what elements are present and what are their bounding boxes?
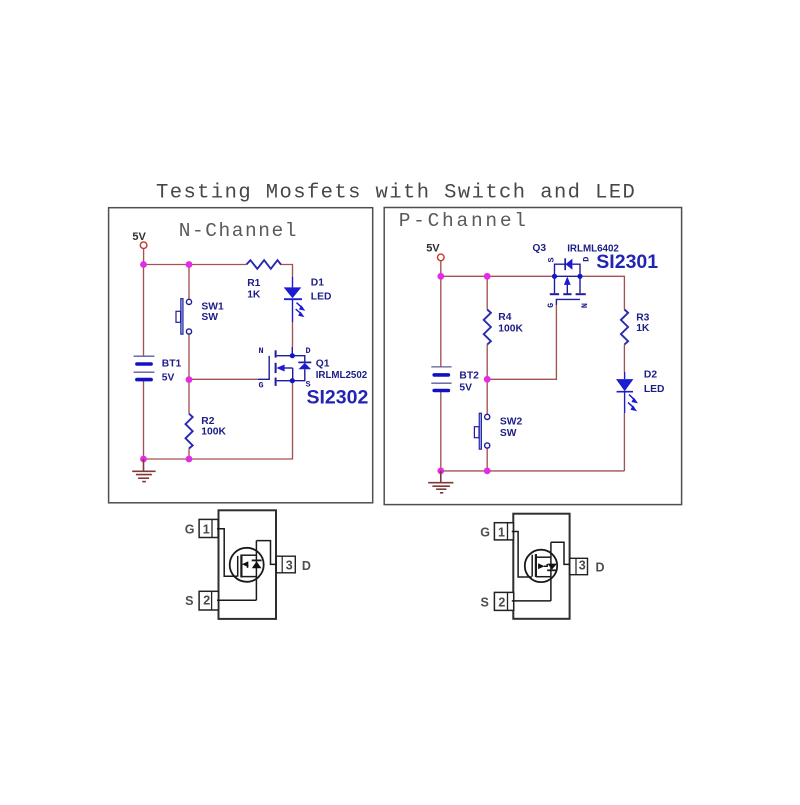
source stub bbox=[277, 380, 293, 382]
battery BT2 bbox=[431, 367, 451, 391]
diode cathode bar bbox=[564, 258, 566, 270]
node top rail r4 bbox=[484, 273, 491, 280]
substrate arrow line bbox=[566, 283, 568, 294]
drain loop right pkg bbox=[551, 542, 570, 564]
wire R4 top lead bbox=[486, 276, 488, 309]
svg-text:D: D bbox=[582, 257, 592, 262]
ground left bbox=[132, 459, 155, 482]
wire SW2 top bbox=[486, 379, 488, 414]
wire sw1 bottom bbox=[188, 334, 190, 380]
LED D2 bbox=[616, 372, 638, 413]
svg-text:1K: 1K bbox=[247, 289, 261, 300]
drain arch bbox=[572, 264, 580, 276]
svg-text:LED: LED bbox=[644, 384, 665, 395]
diode cathode bar left pkg bbox=[252, 559, 262, 561]
gate bar left pkg bbox=[237, 556, 239, 577]
bottom stub left pkg bbox=[241, 576, 256, 578]
package body left bbox=[219, 510, 277, 619]
resistor R4 bbox=[484, 310, 491, 345]
pin1 trace bbox=[217, 529, 237, 576]
node gate bbox=[186, 376, 193, 383]
svg-text:BT1: BT1 bbox=[162, 359, 182, 370]
svg-text:G: G bbox=[259, 381, 264, 391]
source dot Q1 bbox=[290, 378, 295, 383]
substrate line right pkg bbox=[544, 564, 547, 566]
svg-text:G: G bbox=[185, 522, 195, 536]
svg-text:3: 3 bbox=[286, 558, 293, 572]
channel dashes bbox=[275, 350, 277, 357]
resistor R2 bbox=[186, 414, 193, 449]
drain stub bbox=[579, 276, 581, 293]
node top rail left bbox=[140, 261, 147, 268]
pin 2 box right bbox=[494, 592, 513, 610]
svg-text:N: N bbox=[259, 346, 264, 356]
drain dot Q1 bbox=[290, 353, 295, 358]
resistor R3 bbox=[621, 310, 628, 345]
main vertical left pkg bbox=[255, 541, 257, 601]
wire SW2 bottom bbox=[486, 448, 488, 471]
wire mosfet to R3 corner bbox=[580, 276, 624, 309]
battery BT1 bbox=[134, 356, 155, 379]
node top rail bt2 bbox=[437, 273, 444, 280]
wire 5V terminal stub bbox=[143, 249, 145, 265]
wire R4 bottom lead bbox=[486, 345, 488, 380]
svg-text:SI2302: SI2302 bbox=[307, 387, 369, 409]
wire gate bbox=[189, 378, 258, 380]
mosfet Q3 bbox=[550, 258, 586, 305]
substrate line bbox=[283, 367, 293, 369]
node top rail sw1 bbox=[186, 261, 193, 268]
left panel frame bbox=[109, 208, 373, 503]
top stub right pkg bbox=[536, 556, 551, 558]
pin 1 box left bbox=[199, 519, 218, 537]
svg-text:S: S bbox=[481, 596, 489, 610]
svg-text:G: G bbox=[546, 303, 556, 308]
source arch bbox=[555, 264, 565, 276]
junction dots left panel bbox=[140, 261, 192, 462]
pin 1 box right bbox=[494, 523, 513, 540]
node gate r4 bbox=[484, 376, 491, 383]
wire top rail right bbox=[441, 275, 555, 277]
svg-text:3: 3 bbox=[579, 558, 586, 572]
wire battery top bbox=[440, 276, 442, 367]
channel bar right pkg bbox=[535, 554, 537, 577]
node bottom left bbox=[140, 456, 147, 463]
source trace left pkg bbox=[217, 599, 256, 601]
svg-text:2: 2 bbox=[203, 594, 210, 608]
svg-text:SW: SW bbox=[500, 428, 517, 439]
svg-text:N: N bbox=[580, 303, 590, 308]
wire gate Q3 bbox=[487, 305, 556, 379]
wire 5V stub right bbox=[440, 261, 442, 276]
svg-text:G: G bbox=[480, 525, 490, 539]
wire R1 to LED corner bbox=[280, 265, 293, 278]
main vertical right pkg bbox=[550, 542, 552, 601]
body diode triangle Q3 bbox=[566, 259, 573, 270]
junction dots right panel bbox=[437, 273, 490, 474]
channel bar left pkg bbox=[240, 555, 242, 578]
pin1 trace right pkg bbox=[512, 532, 532, 578]
pin 3 box right bbox=[570, 558, 588, 574]
switch SW1 bbox=[176, 299, 192, 335]
svg-text:R1: R1 bbox=[247, 278, 260, 289]
substrate step left pkg bbox=[247, 564, 249, 568]
diode triangle left pkg bbox=[252, 561, 262, 568]
svg-text:D: D bbox=[596, 561, 605, 575]
ground right bbox=[428, 471, 453, 493]
wire R3 to LED bbox=[623, 345, 625, 372]
svg-text:5V: 5V bbox=[459, 383, 472, 394]
mosfet circle right package bbox=[525, 550, 557, 582]
switch SW2 bbox=[474, 413, 489, 449]
drain loop left pkg bbox=[256, 541, 276, 565]
svg-text:P-Channel: P-Channel bbox=[399, 210, 529, 232]
svg-text:100K: 100K bbox=[201, 427, 226, 438]
wire R2 bottom lead bbox=[188, 449, 190, 460]
svg-text:5V: 5V bbox=[162, 372, 175, 383]
gate bar right pkg bbox=[531, 555, 533, 577]
wire R2 top lead bbox=[188, 380, 190, 414]
svg-text:SW: SW bbox=[201, 312, 218, 323]
node bottom bt2 bbox=[437, 468, 444, 475]
5V terminal right bbox=[438, 254, 445, 261]
S dot Q3 bbox=[552, 274, 557, 279]
svg-text:R3: R3 bbox=[636, 312, 649, 323]
svg-text:R4: R4 bbox=[498, 312, 511, 323]
mosfet Q1 bbox=[258, 347, 311, 386]
pin 3 box left bbox=[276, 556, 295, 573]
channel bars bbox=[550, 293, 559, 295]
svg-text:SW2: SW2 bbox=[500, 417, 523, 428]
LED D1 bbox=[284, 277, 306, 322]
svg-text:1K: 1K bbox=[636, 323, 650, 334]
wire top rail bbox=[144, 264, 247, 266]
svg-text:S: S bbox=[185, 594, 193, 608]
wire battery bottom bbox=[440, 391, 442, 471]
svg-text:5V: 5V bbox=[132, 231, 146, 243]
svg-text:N-Channel: N-Channel bbox=[179, 220, 298, 242]
drain stub bbox=[277, 355, 293, 357]
wire bottom rail bbox=[144, 381, 293, 459]
bottom stub right pkg bbox=[536, 576, 551, 578]
svg-text:D: D bbox=[302, 559, 311, 573]
svg-text:D2: D2 bbox=[644, 369, 657, 380]
svg-text:SW1: SW1 bbox=[201, 301, 224, 312]
right panel frame bbox=[384, 208, 681, 505]
5V terminal left bbox=[140, 242, 147, 249]
substrate arrow head Q1 bbox=[276, 365, 284, 372]
body diode triangle Q1 bbox=[299, 363, 312, 369]
substrate arrow right pkg bbox=[538, 563, 544, 569]
substrate arrow head Q3 bbox=[564, 277, 571, 285]
svg-text:2: 2 bbox=[498, 595, 505, 609]
wire LED to mosfet drain bbox=[292, 322, 294, 347]
s-d rail segment bbox=[555, 275, 581, 277]
wire sw1 top bbox=[188, 265, 190, 300]
svg-text:S: S bbox=[547, 257, 557, 262]
drain lead bbox=[291, 347, 293, 356]
diode branch bbox=[292, 356, 305, 363]
svg-text:100K: 100K bbox=[498, 323, 523, 334]
svg-text:1: 1 bbox=[498, 525, 505, 539]
diode cathode bar right pkg bbox=[547, 569, 557, 571]
D dot Q3 bbox=[577, 274, 582, 279]
wire left rail upper bbox=[143, 265, 145, 357]
gate plate bbox=[556, 299, 580, 305]
svg-text:5V: 5V bbox=[426, 243, 440, 255]
svg-text:BT2: BT2 bbox=[459, 370, 479, 381]
svg-text:SI2301: SI2301 bbox=[596, 251, 658, 273]
resistor R1 bbox=[246, 260, 281, 269]
wire left rail lower bbox=[143, 380, 145, 459]
svg-text:D: D bbox=[306, 346, 311, 356]
svg-text:IRLML2502: IRLML2502 bbox=[316, 370, 368, 381]
svg-text:R2: R2 bbox=[201, 416, 214, 427]
node bottom r2 bbox=[186, 456, 193, 463]
wire LED to bottom bbox=[623, 413, 625, 471]
svg-text:Q3: Q3 bbox=[532, 243, 546, 254]
top stub left pkg bbox=[241, 554, 256, 556]
source trace right pkg bbox=[512, 600, 551, 602]
svg-text:Testing Mosfets with Switch an: Testing Mosfets with Switch and LED bbox=[156, 182, 636, 205]
svg-text:LED: LED bbox=[311, 292, 332, 303]
package body right bbox=[513, 514, 569, 619]
svg-text:D1: D1 bbox=[311, 278, 324, 289]
node bottom sw2 bbox=[484, 468, 491, 475]
svg-text:Q1: Q1 bbox=[316, 359, 330, 370]
substrate arrow left pkg bbox=[242, 561, 248, 567]
gate lead bbox=[258, 356, 269, 379]
wire bottom rail right bbox=[441, 470, 625, 472]
source stub bbox=[554, 276, 556, 293]
mosfet circle left package bbox=[230, 548, 264, 582]
diode triangle right pkg bbox=[547, 564, 557, 570]
svg-text:1: 1 bbox=[203, 523, 210, 537]
pin 2 box left bbox=[199, 591, 218, 610]
